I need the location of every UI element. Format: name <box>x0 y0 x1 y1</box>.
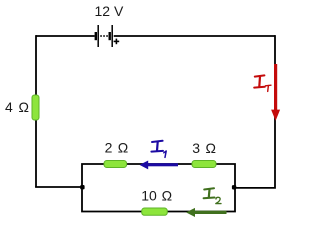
wire middle branch <box>82 164 235 188</box>
resistor 2 ohm <box>104 161 127 168</box>
wire bottom-left horizontal <box>35 186 82 188</box>
junction node right <box>232 185 236 189</box>
svg-text:10 Ω: 10 Ω <box>141 188 172 204</box>
svg-text:4 Ω: 4 Ω <box>5 99 29 115</box>
battery 12V plates <box>96 25 112 47</box>
wire left side <box>35 35 37 187</box>
wire bottom branch <box>82 187 235 212</box>
svg-text:3 Ω: 3 Ω <box>192 140 216 156</box>
wire top-left segment <box>36 35 95 37</box>
wire right side <box>234 35 275 188</box>
label I_1 <box>151 141 163 152</box>
resistor 4 ohm <box>32 95 39 120</box>
label I_T <box>254 75 265 87</box>
current arrow I_1 (blue, left) <box>140 161 179 170</box>
current arrow I_2 (green, left) <box>186 208 227 217</box>
svg-text:12 V: 12 V <box>95 3 124 19</box>
junction node left <box>80 185 84 189</box>
label I_2 <box>204 188 215 198</box>
wire top-right segment <box>114 35 275 37</box>
battery plus sign <box>114 39 120 45</box>
resistor 3 ohm <box>192 161 216 168</box>
resistor 10 ohm <box>142 208 168 215</box>
current arrow I_T (red, down) <box>271 64 280 121</box>
svg-text:2 Ω: 2 Ω <box>105 140 129 156</box>
